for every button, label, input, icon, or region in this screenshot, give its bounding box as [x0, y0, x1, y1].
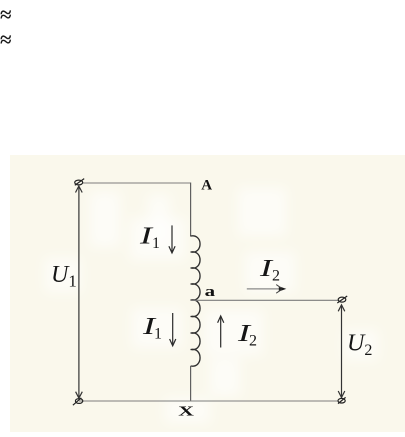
terminal bottom-right: [338, 397, 346, 403]
autotransformer winding lower section: [191, 300, 200, 366]
voltage arrow U1 double-headed: [76, 186, 83, 398]
label I2 top: [259, 255, 280, 285]
svg-text:X: X: [178, 403, 194, 418]
current arrow I1 upper: [169, 225, 175, 253]
voltage arrow U2 double-headed: [338, 305, 345, 398]
wire top: [83, 182, 191, 184]
wire bottom: [79, 400, 338, 402]
svg-text:≈: ≈: [0, 3, 12, 27]
wire tap a to right terminal: [191, 299, 338, 301]
autotransformer winding upper section: [191, 236, 200, 300]
label I1 lower: [142, 313, 162, 343]
current arrow I1 lower: [170, 313, 176, 346]
current arrow I2 up: [218, 316, 224, 348]
svg-text:a: a: [205, 283, 216, 299]
current arrow I2 right: [247, 285, 286, 294]
svg-text:1: 1: [154, 326, 162, 343]
svg-text:≈: ≈: [0, 28, 12, 52]
svg-text:2: 2: [249, 333, 257, 350]
svg-text:A: A: [201, 178, 212, 194]
terminal top-left: [75, 179, 85, 186]
wire winding bottom to X: [190, 366, 192, 401]
terminal top-right: [337, 296, 347, 303]
svg-text:1: 1: [152, 235, 160, 252]
label I2 middle: [237, 320, 257, 350]
label I1 upper: [139, 222, 160, 252]
svg-text:2: 2: [272, 268, 280, 285]
wire A down to winding: [190, 183, 192, 237]
terminal bottom-left: [73, 398, 83, 405]
